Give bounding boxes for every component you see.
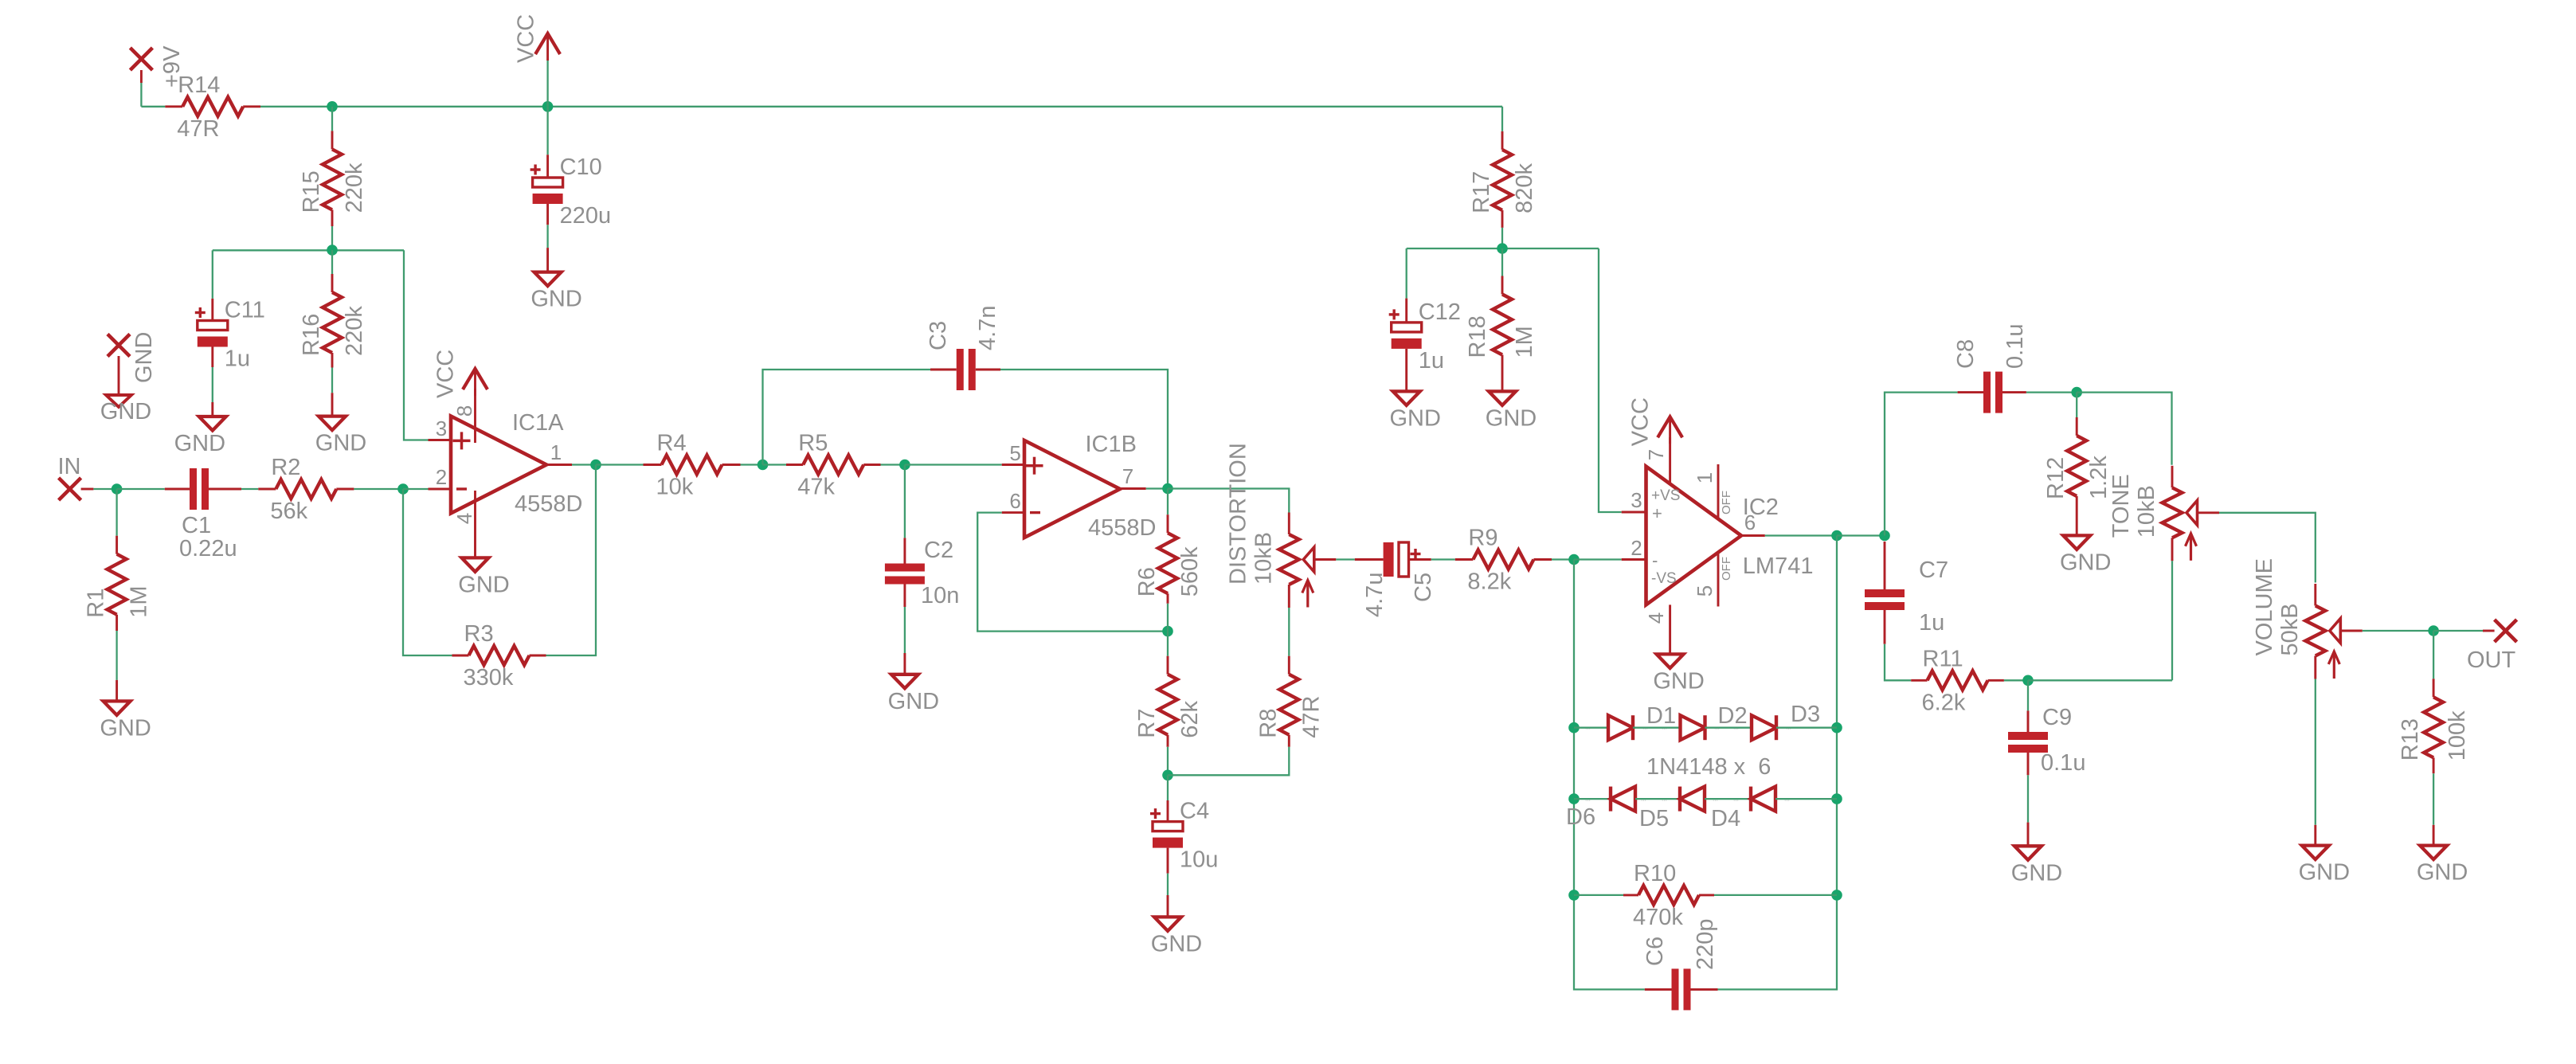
ground GND under C9 [2027,823,2030,847]
svg-text:470k: 470k [1633,905,1683,930]
wire D1-D2 [1633,727,1681,729]
wire IC1A out [572,464,596,465]
svg-text:0.1u: 0.1u [2002,324,2028,369]
svg-text:10kB: 10kB [1251,532,1276,585]
resistor R17 [1501,131,1504,150]
ground GND under R13 [2433,825,2435,846]
svg-text:OFF: OFF [1720,557,1733,581]
ground GND under C12 [1405,390,1407,393]
svg-text:3: 3 [1631,488,1642,512]
svg-text:C8: C8 [1953,339,1979,369]
wire node to R1 [115,489,117,536]
diode D5 [1680,787,1705,812]
pin 5 IC1B [1002,464,1024,466]
ground GND under R1 [115,680,118,702]
capacitor C8 [1958,391,1983,393]
svg-text:560k: 560k [1177,546,1203,597]
power flag +9V [130,48,152,70]
pin 6 IC1B [1002,511,1024,514]
pin 7 IC1B output [1120,487,1146,490]
power flag VCC at C10 [546,33,549,61]
wire C5 to R9 [1431,558,1455,560]
potentiometer TONE [2171,466,2174,488]
svg-text:1u: 1u [1419,348,1444,374]
ground GND under R12 [2076,534,2078,537]
svg-text:R18: R18 [1465,315,1490,358]
svg-text:GND: GND [2011,860,2062,886]
resistor R6 [1167,514,1169,533]
wire wiper to OUT node [2363,630,2433,632]
pin 6 IC2 output [1741,534,1765,537]
svg-text:4: 4 [1644,612,1668,624]
svg-text:330k: 330k [464,665,514,690]
op-amp IC1A [451,417,546,514]
junction R6/R7 node [1162,626,1173,637]
wire bias node rail [1407,248,1599,249]
power flag VCC at IC2 [1669,417,1671,444]
wire out to R6 [1167,489,1169,515]
svg-text:1M: 1M [1512,326,1537,358]
svg-text:···: ··· [1733,726,1739,732]
pin 2 IC1A [429,488,452,491]
capacitor C5 [1355,558,1384,561]
wire node to IC1B pin5 [905,464,1002,465]
svg-text:R4: R4 [657,431,687,456]
junction divider node [327,244,338,256]
wire node to R12 [2076,393,2077,417]
svg-text:-VS: -VS [1651,570,1677,587]
op-amp IC1B [1024,440,1120,538]
svg-text:6: 6 [1009,489,1020,513]
svg-text:C1: C1 [182,513,211,538]
svg-text:···: ··· [1733,798,1739,804]
wire node to C4 [1167,775,1169,800]
svg-text:5: 5 [1693,585,1717,597]
svg-text:R6: R6 [1134,567,1160,597]
svg-text:56k: 56k [270,499,307,524]
svg-text:GND: GND [888,689,939,714]
junction R4/R5/C3 node [758,460,769,471]
wire node to C12 [1406,248,1407,299]
wire D2-D3 [1705,727,1752,729]
resistor R1 [115,536,118,554]
svg-text:GND: GND [100,399,151,424]
svg-text:C5: C5 [1411,573,1436,602]
wire C9 to GND [2027,775,2029,822]
svg-text:100k: 100k [2445,710,2470,761]
svg-text:1: 1 [1693,472,1717,483]
svg-text:C3: C3 [926,321,951,350]
wire node up to C3 [763,370,931,465]
svg-text:1M: 1M [127,585,152,617]
svg-text:2: 2 [1631,536,1642,560]
svg-text:D2: D2 [1718,703,1748,729]
svg-text:D1: D1 [1646,703,1676,729]
capacitor C11 [211,299,213,321]
svg-text:C11: C11 [225,298,265,323]
resistor R11 [1911,679,1927,682]
op-amp IC2 [1646,467,1742,605]
svg-text:IC1B: IC1B [1086,432,1137,457]
port flag IN [59,478,81,500]
svg-text:GND: GND [315,431,366,456]
svg-text:8: 8 [452,405,476,417]
svg-text:4558D: 4558D [1088,515,1156,541]
resistor R8 [1288,656,1290,675]
wire D5-D4 [1705,798,1751,800]
wire node to R18 [1501,248,1503,276]
svg-text:R5: R5 [798,431,828,456]
wire divider to IC1A pin3 [404,250,429,440]
wire C7 to R11 [1885,644,1911,681]
ground GND under VOLUME [2314,825,2316,846]
resistor R7 [1167,656,1169,675]
svg-text:TONE: TONE [2108,474,2134,538]
resistor R10 [1623,894,1638,896]
wire rail to C10 [546,107,548,155]
pin 1 IC2 (OFFSET) [1717,464,1720,519]
wire out to DISTORTION [1168,489,1289,513]
svg-text:···: ··· [1641,798,1646,804]
svg-text:R13: R13 [2398,718,2423,761]
svg-text:DISTORTION: DISTORTION [1225,443,1251,585]
svg-text:D6: D6 [1566,804,1595,830]
svg-text:VCC: VCC [1628,397,1654,446]
wire to R10 [1574,894,1623,896]
wire R9 to node [1552,558,1574,560]
wire node to IC2 pin2 [1574,558,1622,560]
ground flag GND [108,334,130,357]
capacitor C6 [1645,988,1672,991]
svg-text:R8: R8 [1255,709,1281,738]
svg-text:···: ··· [1585,798,1591,804]
capacitor C3 [930,369,957,371]
wire diode ladder left [1574,560,1645,990]
svg-text:4.7u: 4.7u [1362,573,1388,617]
junction IC1A output node [590,460,601,471]
capacitor C10 [546,155,549,178]
svg-text:-: - [1652,550,1658,570]
svg-text:IC1A: IC1A [512,410,564,436]
svg-text:GND: GND [100,715,151,741]
wire D3 to right [1776,727,1837,729]
wire VOLUME to GND [2315,679,2316,825]
junction bias node [1497,243,1508,254]
svg-text:10u: 10u [1180,847,1218,873]
wire C11 to GND [212,367,213,402]
wire rail to R17 [1501,107,1503,131]
svg-text:···: ··· [1662,726,1667,732]
wire R15 to node [331,226,333,250]
svg-text:62k: 62k [1177,700,1203,737]
svg-text:C7: C7 [1919,557,1948,583]
svg-text:D4: D4 [1711,806,1740,831]
pin 1 IC1A output [546,464,572,466]
wire to D1 [1574,727,1608,729]
svg-text:47k: 47k [797,475,835,500]
wire D4 to right [1775,798,1837,800]
wire VCC to rail [546,61,548,107]
junction R5/C2/pin5 node [899,460,910,471]
pin 4 IC2 (GND) [1669,604,1671,654]
pin 4 IC1A (GND) [474,491,476,557]
wire node to C9 [2027,680,2029,710]
junction C7/C8 node [1879,530,1890,542]
svg-text:220p: 220p [1693,918,1718,970]
svg-text:C9: C9 [2042,705,2072,730]
svg-text:GND: GND [2417,860,2468,886]
junction IC2 pin2 node [1568,554,1580,565]
svg-text:220k: 220k [342,162,367,213]
wire node to R7 [1167,632,1169,656]
wire R10 to right [1714,894,1837,896]
svg-text:+VS: +VS [1651,487,1680,504]
svg-text:8.2k: 8.2k [1467,569,1511,595]
svg-text:4.7n: 4.7n [975,306,1000,350]
wire TONE bottom to R11 node [2171,561,2173,680]
wire C1 to R2 [241,488,258,490]
wire R3 to output [546,465,597,656]
wire wiper to C5 [1336,558,1355,560]
junction R10 row left [1568,890,1580,901]
wire R13 to GND [2433,773,2434,825]
wire TONE wiper to VOLUME [2219,513,2316,583]
junction R10 row right [1831,890,1842,901]
wire node to C2 [904,465,906,538]
potentiometer VOLUME [2314,584,2316,606]
resistor R18 [1501,276,1504,295]
resistor R13 [2433,679,2435,697]
svg-text:VCC: VCC [433,350,459,398]
wire IC2 out [1765,534,1837,536]
port flag OUT [2483,630,2495,632]
ground GND under C11 [211,402,213,417]
junction IC1B output node [1162,483,1173,495]
junction C8/R12 node [2071,387,2082,398]
svg-text:GND: GND [530,287,581,312]
svg-text:47R: 47R [177,116,219,142]
resistor R16 [331,274,334,292]
svg-text:R2: R2 [271,455,300,480]
junction D4 row left [1568,793,1580,804]
svg-text:0.1u: 0.1u [2041,750,2085,776]
svg-text:C2: C2 [924,538,953,563]
ground GND under R16 [331,393,334,416]
svg-text:820k: 820k [1512,163,1537,213]
svg-text:R15: R15 [299,170,324,213]
wire IC1B out [1146,487,1168,489]
ground GND under C10 [546,248,549,272]
svg-text:R1: R1 [84,589,109,618]
svg-text:C4: C4 [1180,799,1209,824]
capacitor C7 [1884,542,1886,589]
junction VCC rail / R15 [327,101,338,112]
wire IC1B pin6 loop [977,513,1168,632]
svg-text:R17: R17 [1469,171,1494,213]
svg-text:1: 1 [550,440,562,464]
wire to D6 [1574,798,1611,800]
svg-text:7: 7 [1122,464,1133,488]
junction VCC rail / C10 [542,101,554,112]
wire R7 to node [1167,747,1169,776]
svg-text:OUT: OUT [2467,647,2516,673]
svg-text:GND: GND [1486,405,1537,431]
wire divider rail [213,249,404,251]
wire bias to IC2 pin3 [1599,248,1622,512]
svg-text:GND: GND [1151,931,1202,956]
junction D3 row right [1831,722,1842,733]
wire C4 to GND [1167,874,1169,895]
pin 5 IC2 (OFFSET) [1717,552,1720,607]
capacitor C1 [165,488,190,491]
svg-text:47R: 47R [1298,695,1324,737]
svg-text:GND: GND [174,431,225,456]
resistor R14 [165,105,182,108]
wire R8 to node [1168,747,1289,776]
diode D4 [1751,787,1775,812]
svg-text:GND: GND [1389,405,1440,431]
junction OUT node [2428,625,2439,636]
junction R7/R8/C4 node [1162,770,1173,781]
svg-text:R11: R11 [1923,646,1963,671]
resistor R2 [258,488,276,491]
svg-text:2: 2 [436,465,447,489]
svg-text:LM741: LM741 [1743,554,1814,579]
svg-text:3: 3 [436,417,447,440]
svg-text:10n: 10n [921,583,959,608]
wire D6-D5 [1635,798,1680,800]
wire out up to C8 [1885,393,1958,536]
svg-text:GND: GND [2060,550,2111,575]
svg-text:220k: 220k [342,306,367,356]
pin 3 IC2 [1622,511,1646,514]
wire rail to R15 [331,107,333,131]
capacitor C12 [1405,299,1407,323]
svg-text:D3: D3 [1791,702,1820,727]
ground GND under C2 [903,653,906,675]
svg-text:···: ··· [1714,726,1720,732]
wire R17 to node [1501,228,1503,248]
junction inverting input node [397,483,409,495]
wire node to C1 [117,488,165,490]
svg-text:R9: R9 [1468,526,1497,551]
junction IN node [112,483,123,495]
resistor R12 [2076,417,2078,436]
svg-text:R3: R3 [464,621,494,647]
svg-text:6: 6 [1744,510,1756,534]
wire node to IC1A pin2 [403,488,429,490]
wire out to C7 node [1837,534,1885,536]
power flag VCC at IC1A [474,369,476,396]
diode D1 [1608,715,1633,740]
wire C2 to GND [904,607,906,653]
junction D1 row left [1568,722,1580,733]
junction output/diodes [1831,530,1842,542]
wire C8 to node [2026,391,2077,393]
svg-text:220u: 220u [560,203,612,229]
wire node to TONE bottom [2028,679,2172,681]
capacitor C9 [2027,710,2030,732]
wire C10 to GND [546,225,548,248]
diode D6 [1611,787,1635,812]
junction R11/C9 node [2022,675,2034,687]
diode D2 [1681,715,1705,740]
wire diode ladder right [1718,536,1838,990]
svg-text:R10: R10 [1634,861,1676,886]
svg-text:R7: R7 [1134,709,1160,738]
wire node to R5 [763,464,787,465]
svg-text:GND: GND [1653,668,1704,694]
wire node to R16 [331,250,333,274]
wire node to C11 [212,250,213,299]
svg-text:+: + [1652,503,1662,523]
wire DISTORTION to R8 [1288,608,1290,656]
svg-text:6.2k: 6.2k [1922,690,1966,715]
wire R2 to node [354,488,403,490]
svg-text:IN: IN [58,454,81,479]
svg-text:10kB: 10kB [2134,485,2159,538]
svg-text:D5: D5 [1639,806,1669,831]
wire C3 to IC1B out [1000,370,1168,489]
svg-text:R16: R16 [299,314,324,356]
svg-text:GND: GND [131,332,157,383]
resistor R9 [1455,558,1474,561]
ground GND under C4 [1167,895,1169,917]
svg-text:1u: 1u [1919,610,1944,636]
svg-text:5: 5 [1009,441,1020,465]
wire IN to node [93,488,116,490]
diode D3 [1752,715,1776,740]
svg-text:10k: 10k [656,475,694,500]
svg-text:50kB: 50kB [2277,603,2303,655]
svg-text:···: ··· [1585,726,1591,732]
wire R5 to node [881,464,905,465]
svg-text:7: 7 [1644,449,1668,460]
svg-text:4558D: 4558D [515,491,582,517]
svg-text:0.22u: 0.22u [179,536,237,561]
wire node to R13 [2433,631,2434,679]
resistor R15 [331,131,334,149]
svg-text:C10: C10 [560,155,602,180]
wire R11 to node [2004,679,2028,681]
potentiometer DISTORTION [1288,513,1290,535]
capacitor C4 [1167,800,1169,822]
svg-text:OFF: OFF [1720,491,1733,514]
svg-text:···: ··· [1662,798,1667,804]
svg-text:···: ··· [1713,798,1718,804]
wire node to OUT [2433,630,2483,632]
svg-text:···: ··· [1786,726,1791,732]
wire out to R4 [596,464,644,465]
svg-text:R12: R12 [2043,457,2069,499]
wire rail to R14 [141,106,165,108]
svg-text:C6: C6 [1642,937,1668,966]
wire R4 to node [741,464,763,465]
capacitor C2 [903,538,906,563]
resistor R5 [786,464,803,466]
wire +9V to rail [140,83,142,107]
resistor R4 [644,464,662,466]
svg-text:4: 4 [452,513,476,524]
svg-text:1N4148 x 6: 1N4148 x 6 [1646,754,1771,780]
svg-text:R14: R14 [178,72,220,98]
svg-text:···: ··· [1784,798,1790,804]
svg-text:1u: 1u [225,346,250,372]
svg-text:VCC: VCC [514,14,539,63]
pin 2 IC2 [1622,558,1646,561]
svg-text:GND: GND [2299,860,2350,886]
ground GND under R18 [1501,390,1504,393]
